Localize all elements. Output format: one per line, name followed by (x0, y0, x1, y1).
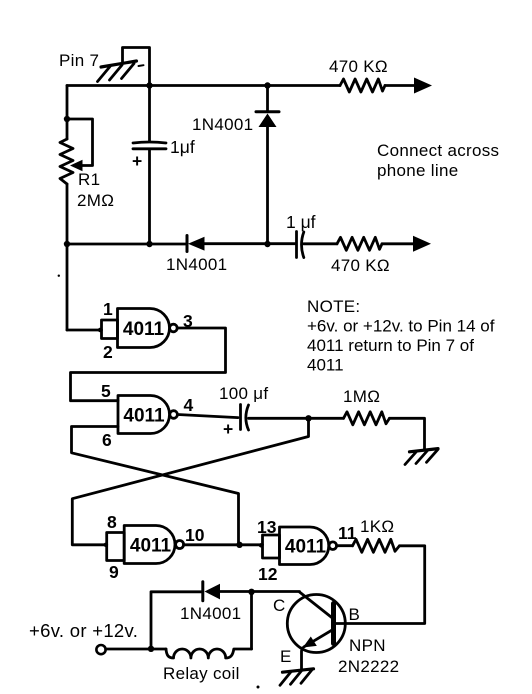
ground G1 (pin 7) (98, 61, 144, 82)
gate U1C 4011 body (124, 526, 175, 564)
svg-text:4: 4 (184, 395, 194, 415)
svg-text:1MΩ: 1MΩ (343, 387, 380, 406)
wire: gate1 input (67, 329, 102, 332)
gate U1A output bubble (170, 324, 178, 332)
node: relay box left (148, 646, 154, 652)
resistor 1K zigzag (353, 539, 400, 552)
capacitor C1 1uf branch wire top (148, 86, 151, 142)
ground G3 (emitter) (280, 669, 314, 686)
wire: left rail upper (66, 86, 69, 140)
node: top rail / D1 junction (264, 82, 270, 88)
svg-text:1μf: 1μf (170, 137, 195, 157)
capacitor C2 1uf (series) (295, 232, 298, 258)
resistor 470K (bottom) (337, 237, 382, 250)
gate U1A input tie box (pins 1,2) (102, 320, 118, 339)
resistor 470K (top) (340, 79, 385, 92)
svg-text:5: 5 (101, 381, 111, 401)
wire: bottom arrow lead (382, 242, 416, 245)
svg-text:E: E (280, 647, 292, 666)
transistor Q1 2N2222 circle (287, 595, 345, 653)
node: top rail / C1 junction (146, 82, 152, 88)
arrow (top, to phone line) (414, 78, 432, 94)
svg-text:1N4001: 1N4001 (166, 255, 227, 274)
inductor: relay coil (166, 649, 252, 658)
node: gate3 out / cross couple (236, 542, 242, 548)
node: set junction (305, 415, 311, 421)
wire: gate4 output to 1K (337, 544, 353, 547)
wire: top arrow lead (385, 84, 417, 87)
wire: relay box right vertical (250, 592, 253, 649)
wire: gate2 output to 100uf (178, 415, 238, 418)
svg-text:C: C (273, 596, 286, 615)
gate U1D input tie box (pins 13,12) (263, 535, 280, 558)
emitter arrow (303, 637, 317, 648)
wire: top rail (67, 84, 340, 87)
svg-text:4011 return to Pin 7 of: 4011 return to Pin 7 of (307, 336, 474, 355)
svg-text:4011: 4011 (285, 537, 327, 558)
svg-text:2: 2 (103, 342, 113, 362)
svg-text:1N4001: 1N4001 (180, 604, 241, 623)
svg-text:NPN: NPN (349, 636, 386, 655)
svg-text:1KΩ: 1KΩ (360, 517, 394, 536)
svg-text:+: + (132, 151, 142, 171)
svg-text:+6v. or +12v.: +6v. or +12v. (29, 620, 138, 641)
svg-text:9: 9 (109, 562, 119, 582)
resistor 1M zigzag (344, 412, 390, 425)
wire: gate3 output to gate4 input (184, 543, 263, 546)
emitter lead (304, 630, 333, 647)
svg-text:R1: R1 (78, 170, 100, 189)
wire: relay box left vertical (151, 592, 203, 649)
wire+collector lead (300, 592, 334, 619)
svg-text:4011: 4011 (123, 406, 165, 427)
wire: supply to relay (106, 648, 166, 651)
gate U1D 4011 body (280, 527, 329, 565)
op... gate U1A 4011 body (118, 309, 170, 348)
arrow (bottom, to phone line) (413, 236, 431, 252)
wire: mid rail (67, 243, 187, 246)
node: mid rail / D1 (264, 241, 270, 247)
svg-text:4011: 4011 (307, 356, 344, 375)
wire: pin7 ground loop (123, 48, 150, 86)
svg-text:NOTE:: NOTE: (307, 297, 360, 316)
svg-text:12: 12 (258, 564, 278, 584)
svg-text:6: 6 (102, 430, 112, 450)
terminal (supply) (96, 645, 105, 654)
svg-text:1N4001: 1N4001 (192, 115, 253, 134)
svg-text:phone line: phone line (377, 161, 458, 180)
svg-text:4011: 4011 (130, 536, 172, 557)
diode D1 1N4001 (vertical) (266, 86, 269, 112)
gate U1B output bubble (170, 411, 178, 419)
svg-text:Pin 7: Pin 7 (59, 51, 99, 70)
svg-text:Connect across: Connect across (377, 141, 499, 160)
arrow: R1 wiper (70, 160, 83, 171)
node: relay box right top (248, 589, 254, 595)
svg-text:2MΩ: 2MΩ (77, 191, 114, 210)
gate U1D output bubble (329, 542, 337, 550)
wire: 100uf to 1M (249, 417, 344, 420)
wire: left rail lower (66, 184, 69, 330)
capacitor C4 100uf plates (239, 405, 242, 430)
svg-text:11: 11 (338, 523, 357, 543)
ground G2 (1M) (405, 449, 438, 465)
gate U1C input tie box (pins 8,9) (107, 533, 125, 561)
svg-text:13: 13 (257, 517, 277, 537)
svg-text:1 μf: 1 μf (286, 212, 316, 232)
node: mid rail / left rail (64, 241, 70, 247)
gate U1C output bubble (176, 541, 184, 549)
resistor R1 2M (zigzag) (60, 139, 73, 184)
svg-text:8: 8 (107, 512, 117, 532)
speck (257, 686, 260, 689)
capacitor C1 branch wire bottom (148, 150, 151, 244)
svg-text:+: + (223, 419, 233, 439)
transistor base bar (331, 604, 336, 644)
diode D2 1N4001 (horizontal) (186, 236, 189, 252)
wire: R1 wiper loop (67, 119, 93, 166)
wire: gate1 output loop to gate2 pin5 (71, 328, 226, 401)
svg-text:1: 1 (103, 299, 113, 319)
svg-text:470 KΩ: 470 KΩ (331, 256, 390, 275)
svg-text:2N2222: 2N2222 (338, 657, 399, 676)
node: R1 wiper tap top (64, 116, 70, 122)
svg-text:470 KΩ: 470 KΩ (329, 57, 388, 76)
wire: 1M to ground (390, 418, 425, 450)
capacitor C1 plates (133, 142, 166, 143)
wire: 1K to transistor base (336, 546, 425, 624)
svg-text:4011: 4011 (123, 319, 165, 340)
wire: emitter to ground (302, 648, 303, 670)
svg-text:Relay coil: Relay coil (163, 664, 240, 683)
wire: set junction diagonal to gate3 input (72, 418, 308, 545)
diode D3 1N4001 (relay clamp) (201, 582, 204, 601)
svg-text:B: B (349, 605, 361, 624)
gate U1B 4011 body (118, 396, 170, 434)
wire: gate2 pin6 cross-couple to gate3 output (72, 427, 239, 545)
svg-text:+6v. or +12v. to Pin 14 of: +6v. or +12v. to Pin 14 of (307, 317, 495, 336)
svg-text:10: 10 (185, 525, 205, 545)
node: mid rail / C1 (146, 241, 152, 247)
svg-text:100 μf: 100 μf (219, 384, 268, 403)
